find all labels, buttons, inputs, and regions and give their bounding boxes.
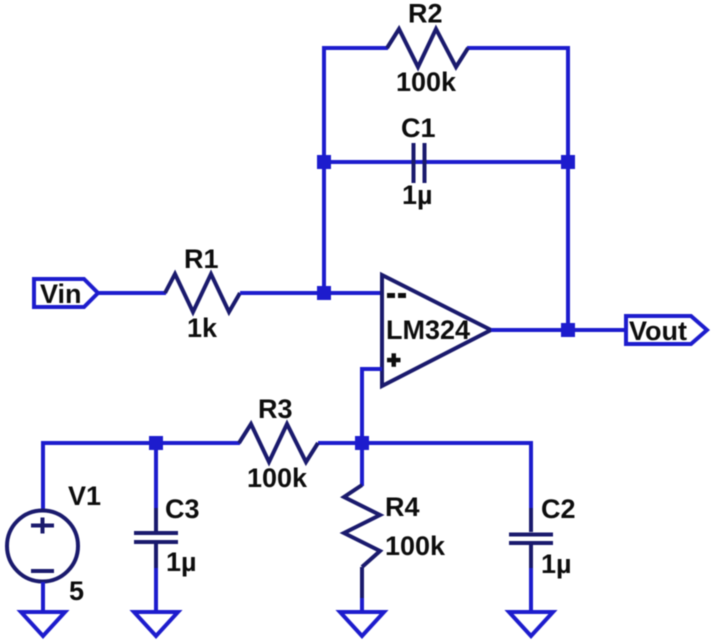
wire R4 to ground bbox=[360, 567, 364, 612]
wire bottom rail left bbox=[43, 443, 240, 510]
resistor R3 bbox=[239, 424, 318, 462]
node junction noninverting bbox=[355, 436, 369, 450]
svg-text:LM324: LM324 bbox=[386, 315, 470, 345]
capacitor C1 bbox=[414, 143, 425, 183]
wire op-amp output to Vout bbox=[491, 328, 624, 332]
svg-text:1µ: 1µ bbox=[541, 549, 572, 579]
svg-text:1µ: 1µ bbox=[402, 180, 433, 210]
svg-text:V1: V1 bbox=[68, 481, 101, 511]
node junction output bbox=[561, 323, 575, 337]
svg-text:100k: 100k bbox=[396, 67, 457, 97]
wire R4 top lead bbox=[360, 443, 364, 486]
node junction C1 right bbox=[561, 155, 575, 169]
voltage source V1 circle bbox=[7, 511, 78, 582]
svg-text:Vout: Vout bbox=[629, 316, 687, 346]
wire top rail right + right column bbox=[467, 48, 568, 331]
svg-text:R4: R4 bbox=[385, 492, 420, 522]
wire bottom rail right + C2 drop bbox=[318, 443, 531, 508]
op-amp U1 LM324 triangle bbox=[382, 275, 491, 386]
resistor R2 bbox=[387, 29, 468, 67]
svg-text:C2: C2 bbox=[541, 494, 576, 524]
capacitor C2 bbox=[509, 508, 553, 568]
svg-text:C3: C3 bbox=[165, 494, 200, 524]
V1 minus marker bbox=[31, 569, 54, 573]
svg-text:1µ: 1µ bbox=[166, 547, 197, 577]
wire V1 to ground bbox=[41, 582, 45, 612]
svg-text:Vin: Vin bbox=[40, 279, 82, 309]
flag Vin bbox=[34, 279, 98, 307]
wire R1 to op-amp inverting input bbox=[240, 291, 382, 295]
ground C2 bbox=[509, 612, 553, 636]
svg-text:100k: 100k bbox=[247, 463, 308, 493]
ground V1 bbox=[21, 612, 65, 636]
ground C3 bbox=[134, 612, 178, 636]
pin plus marker bbox=[387, 353, 401, 367]
capacitor C3 bbox=[134, 508, 178, 568]
node junction C3 bbox=[149, 436, 163, 450]
svg-text:R1: R1 bbox=[184, 244, 219, 274]
wire C3 top lead bbox=[154, 443, 158, 508]
pin minus marker bbox=[387, 293, 406, 298]
svg-text:100k: 100k bbox=[385, 531, 446, 561]
ground R4 bbox=[340, 612, 384, 636]
wire Vin to R1 bbox=[98, 291, 166, 295]
resistor R1 bbox=[165, 274, 240, 312]
node junction C1 left bbox=[317, 155, 331, 169]
node junction inverting input bbox=[317, 286, 331, 300]
svg-text:R3: R3 bbox=[258, 394, 293, 424]
svg-text:1k: 1k bbox=[187, 313, 218, 343]
V1 plus marker bbox=[31, 518, 54, 534]
resistor R4 bbox=[344, 485, 380, 567]
svg-text:C1: C1 bbox=[401, 113, 436, 143]
wire C3 to ground bbox=[154, 568, 158, 612]
svg-text:R2: R2 bbox=[408, 0, 443, 29]
wire C1 row bbox=[324, 160, 568, 164]
flag Vout bbox=[626, 316, 707, 344]
wire C2 to ground bbox=[529, 568, 533, 612]
wire top rail left + left column bbox=[324, 48, 388, 295]
svg-text:5: 5 bbox=[69, 576, 84, 606]
wire op-amp noninverting stub bbox=[362, 369, 382, 443]
